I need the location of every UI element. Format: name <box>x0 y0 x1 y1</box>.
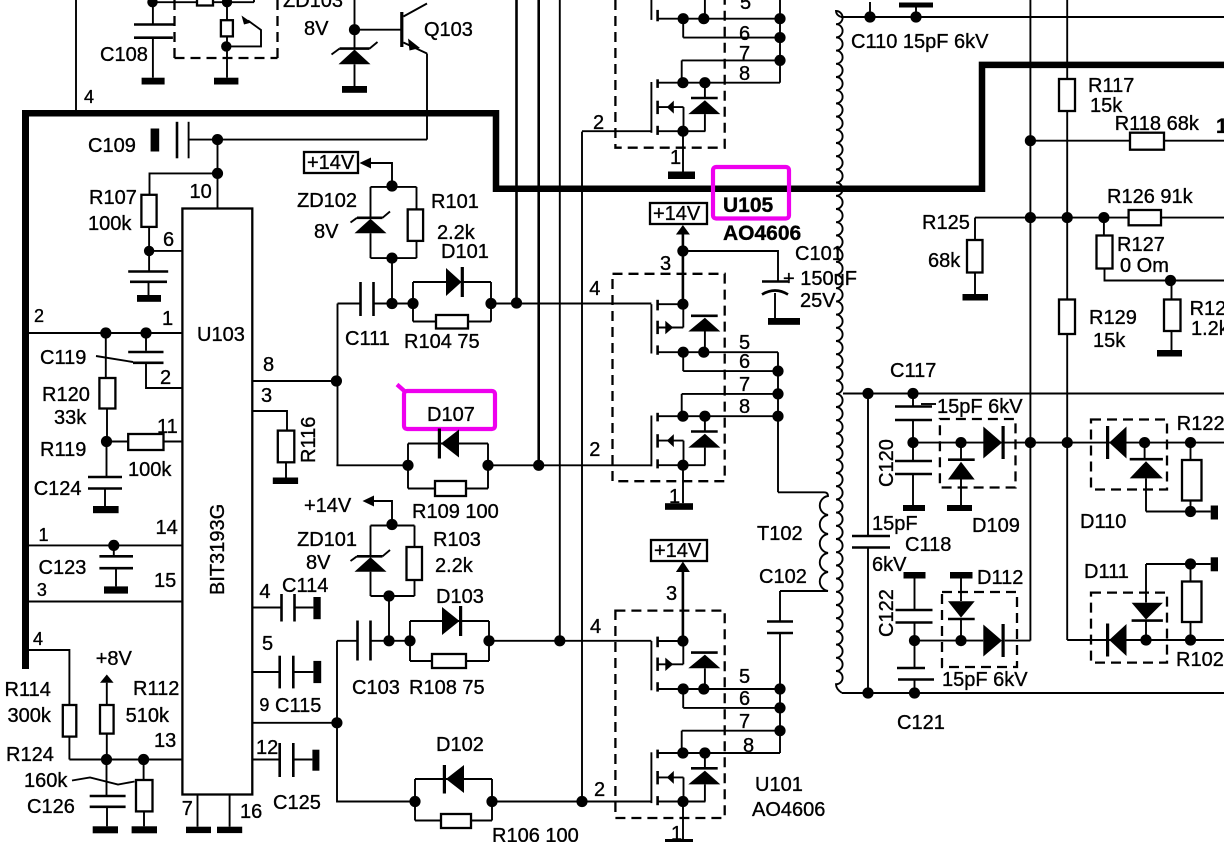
diode D111 series <box>1106 624 1127 657</box>
resistor R114 300k <box>5 679 77 760</box>
svg-text:15pF 6kV: 15pF 6kV <box>937 396 1023 418</box>
wire vertical top-left <box>75 0 77 111</box>
svg-text:D103: D103 <box>436 586 484 608</box>
junction dot <box>147 0 157 7</box>
thick supply line <box>22 65 1224 189</box>
wire right bus top box <box>774 0 785 83</box>
node 4 label top-left <box>84 87 94 107</box>
plate terminal C122 <box>904 572 926 579</box>
svg-text:R129: R129 <box>1089 307 1137 329</box>
svg-text:D107: D107 <box>427 404 475 426</box>
svg-text:R119: R119 <box>40 439 86 461</box>
junction dot <box>1185 506 1196 517</box>
svg-text:R114: R114 <box>5 679 51 701</box>
svg-text:R118 68k: R118 68k <box>1115 113 1200 135</box>
resistor R125 68k <box>922 212 983 294</box>
svg-text:1: 1 <box>39 525 49 545</box>
capacitor C108 <box>100 2 175 78</box>
svg-text:15k: 15k <box>1093 330 1126 352</box>
svg-text:510k: 510k <box>126 705 170 727</box>
junction dot v1 <box>511 297 522 308</box>
capacitor C124 <box>34 442 122 507</box>
svg-text:C120: C120 <box>876 439 898 487</box>
junction dot <box>1062 437 1073 448</box>
svg-text:D102: D102 <box>436 734 484 756</box>
junction dot <box>108 540 119 551</box>
wire bottom rail <box>842 692 1224 694</box>
wire to C103 node <box>388 596 390 641</box>
junction dot <box>862 687 873 698</box>
junction dot <box>485 298 496 309</box>
svg-text:R121: R121 <box>1190 298 1224 320</box>
svg-text:ZD103: ZD103 <box>283 0 343 12</box>
svg-text:3: 3 <box>261 385 272 407</box>
resistor R104 75 <box>404 315 491 353</box>
dashed box trimmer <box>175 0 278 58</box>
svg-text:ZD102: ZD102 <box>297 190 357 212</box>
diode D101 loop <box>407 241 491 322</box>
IC U103 BIT3193G <box>182 209 252 795</box>
capacitor at pin6 <box>128 251 168 295</box>
svg-text:C114: C114 <box>282 575 328 597</box>
capacitor C121 15pF 6kV <box>897 641 1028 734</box>
svg-text:C124: C124 <box>34 478 82 500</box>
capacitor C122 <box>876 579 933 641</box>
resistor R126 91k <box>1107 186 1194 225</box>
svg-text:6: 6 <box>739 23 750 45</box>
svg-text:2: 2 <box>594 779 605 801</box>
dashed box U105 <box>613 274 725 481</box>
svg-text:8V: 8V <box>304 18 329 40</box>
wire pin7 top box <box>682 43 780 83</box>
pin 16 stub <box>230 795 263 827</box>
resistor R118 68k <box>1115 113 1200 150</box>
wire pin1 row <box>29 306 182 333</box>
label 1 cut right edge <box>1216 115 1224 138</box>
junction dot <box>1025 135 1036 146</box>
svg-text:3: 3 <box>666 583 677 605</box>
capacitor C115 <box>252 633 321 717</box>
plate terminal D109 <box>947 505 972 511</box>
svg-text:9: 9 <box>259 695 269 715</box>
wire pin7 U105 <box>682 374 778 416</box>
label AO4606 U101 <box>752 799 825 821</box>
junction dot <box>100 327 111 338</box>
junction dot pin10 <box>212 168 223 179</box>
svg-text:8V: 8V <box>314 221 339 243</box>
junction dot <box>386 519 397 530</box>
resistor R106 100 <box>415 814 579 842</box>
svg-text:+14V: +14V <box>307 152 355 174</box>
transformer T102 secondary <box>836 11 843 693</box>
diode D102 loop <box>409 734 492 821</box>
label U101 <box>755 774 803 796</box>
wire secondary top rail <box>841 16 1224 18</box>
ground C126 <box>93 826 118 833</box>
transistor Q103 <box>400 4 473 140</box>
svg-text:C117: C117 <box>890 360 936 382</box>
junction dot <box>1185 558 1196 569</box>
svg-text:8: 8 <box>739 63 750 85</box>
dashed box top MOSFET pair <box>615 0 724 148</box>
junction dot pin6 <box>144 246 154 256</box>
wire pin 6 <box>149 229 182 251</box>
wire pin6 top box <box>683 19 780 45</box>
diode D111 shunt <box>1084 561 1163 640</box>
junction dot <box>140 327 151 338</box>
svg-text:13: 13 <box>154 730 176 752</box>
dashed box D109 <box>940 419 1016 488</box>
trimmer potentiometer <box>221 2 261 78</box>
plate terminal C120 <box>903 505 925 511</box>
wire pin 8 <box>252 354 336 381</box>
diode D112 series <box>983 624 1030 657</box>
label pin4 U105 <box>589 278 600 300</box>
capacitor C125 <box>252 737 321 814</box>
ground C124 <box>93 506 119 513</box>
capacitor C117 15pF 6kV <box>890 360 1023 443</box>
junction dot tap rail C117 <box>907 388 918 399</box>
wire bus v1 <box>515 0 518 303</box>
svg-text:R120: R120 <box>42 384 90 406</box>
thick left border <box>22 110 29 669</box>
svg-text:1: 1 <box>162 308 173 330</box>
svg-text:D109: D109 <box>972 515 1020 537</box>
capacitor C111 <box>338 282 414 350</box>
svg-text:100k: 100k <box>128 459 172 481</box>
wire D112 row <box>915 640 984 642</box>
svg-text:2: 2 <box>160 367 171 389</box>
wire to C111 node <box>391 258 393 303</box>
mosfet upper U105 <box>651 299 778 358</box>
svg-text:6kV: 6kV <box>872 554 907 576</box>
svg-text:8: 8 <box>743 735 754 757</box>
svg-text:D111: D111 <box>1084 561 1129 583</box>
svg-text:R101: R101 <box>431 191 479 213</box>
resistor R120 33k <box>42 333 115 442</box>
svg-text:C111: C111 <box>345 328 390 350</box>
ground C123 <box>104 586 128 593</box>
svg-text:C119: C119 <box>40 347 86 369</box>
wire pin1 U101 <box>671 802 683 842</box>
svg-text:C122: C122 <box>876 589 898 637</box>
svg-text:R109 100: R109 100 <box>412 501 499 523</box>
resistor R108 75 <box>409 654 489 699</box>
power +14V boxed <box>304 152 392 187</box>
svg-text:15pF: 15pF <box>872 513 918 535</box>
zener ZD102 8V <box>297 187 390 258</box>
junction dot v3 <box>554 635 565 646</box>
junction dot <box>383 590 394 601</box>
junction dot <box>1165 275 1176 286</box>
svg-text:U105: U105 <box>723 194 774 217</box>
junction dot R119 <box>101 436 112 447</box>
wire base Q103 <box>355 29 401 31</box>
capacitor C114 <box>252 575 328 622</box>
svg-text:8: 8 <box>263 354 274 376</box>
svg-text:C115: C115 <box>275 695 321 717</box>
wire D101 row to U105 pin4 <box>491 303 651 305</box>
junction dot +14V U105 <box>677 245 688 256</box>
resistor R116 <box>278 417 320 478</box>
svg-text:R112: R112 <box>133 678 179 700</box>
resistor R102 <box>1176 564 1224 671</box>
wire pin13 row <box>69 730 182 760</box>
svg-text:1: 1 <box>1216 115 1224 138</box>
junction dot <box>101 754 112 765</box>
junction dot <box>138 754 149 765</box>
resistor R117 15k <box>1059 75 1134 117</box>
svg-text:2.2k: 2.2k <box>435 555 474 577</box>
wire bus v3 <box>559 0 561 641</box>
junction dot <box>1185 634 1196 645</box>
svg-text:U103: U103 <box>197 324 245 346</box>
junction dot <box>864 11 875 22</box>
label pin2 U105 <box>589 439 600 461</box>
ground ZD103 <box>342 86 367 93</box>
junction dot v4 <box>576 796 587 807</box>
terminal bar D110 out <box>1211 506 1218 520</box>
wire pin6 U105 <box>683 351 778 373</box>
svg-text:R116: R116 <box>298 417 320 463</box>
capacitor C110 15pF 6kV <box>851 2 989 53</box>
svg-text:R102: R102 <box>1176 649 1224 671</box>
diode D107 loop <box>402 429 488 489</box>
zener ZD103 <box>283 0 378 86</box>
svg-text:12: 12 <box>256 737 278 759</box>
svg-text:R122: R122 <box>1177 413 1224 435</box>
capacitor C126 <box>27 760 126 827</box>
svg-text:4: 4 <box>33 629 43 649</box>
svg-text:4: 4 <box>590 616 601 638</box>
ground pin1 top box <box>668 172 695 180</box>
diode D109 series <box>983 426 1004 459</box>
mosfet lower U105 <box>651 396 778 471</box>
wire D103 row to U101 pin4 <box>489 640 651 642</box>
svg-text:2: 2 <box>593 112 604 134</box>
wire pin4 left row <box>29 629 69 705</box>
svg-text:C101: C101 <box>795 243 843 265</box>
dashed box D110 <box>1091 420 1167 490</box>
wire D109 output row <box>913 442 1224 444</box>
junction dot v2 <box>533 460 544 471</box>
svg-text:4: 4 <box>259 581 270 603</box>
svg-text:2: 2 <box>589 439 600 461</box>
wire pin 9 <box>252 722 337 724</box>
wire pin10 node <box>217 140 219 209</box>
svg-text:R107: R107 <box>89 187 137 209</box>
svg-text:8: 8 <box>739 396 750 418</box>
pin 7 stub <box>182 795 198 827</box>
svg-text:15pF 6kV: 15pF 6kV <box>942 669 1028 691</box>
junction dot <box>955 437 966 448</box>
resistor R112 510k <box>100 678 179 760</box>
capacitor C123 <box>39 545 177 592</box>
transformer T102 primary <box>757 492 828 591</box>
wire to R107 <box>150 173 218 194</box>
wire ZD101/R103 bottom rail <box>371 595 415 597</box>
terminal bar D111 out <box>1211 557 1218 571</box>
svg-text:R108 75: R108 75 <box>409 677 485 699</box>
mosfet lower U101 <box>651 735 780 807</box>
svg-text:15: 15 <box>154 570 176 592</box>
wire pin7 U101 <box>682 711 780 753</box>
svg-text:+14V: +14V <box>304 495 352 517</box>
svg-text:U101: U101 <box>755 774 803 796</box>
pin 10 label <box>190 181 212 203</box>
svg-text:7: 7 <box>739 43 750 65</box>
svg-text:1.2k: 1.2k <box>1191 318 1224 340</box>
svg-text:BIT3193G: BIT3193G <box>207 504 229 595</box>
ground R121 <box>1157 350 1182 357</box>
svg-text:1: 1 <box>670 147 681 169</box>
highlight box D107 <box>397 385 495 430</box>
junction dot <box>221 41 231 51</box>
resistor R122 <box>1177 413 1224 512</box>
svg-text:8V: 8V <box>306 552 331 574</box>
wire bus v4 <box>581 132 583 802</box>
dashed box U101 <box>615 611 724 818</box>
capacitor C101 150uF 25V <box>762 243 857 318</box>
capacitor C118 15pF 6kV <box>852 394 951 694</box>
svg-text:+ 150uF: + 150uF <box>783 268 857 290</box>
svg-text:6: 6 <box>739 351 750 373</box>
wire to C101 <box>683 251 778 281</box>
junction dot C103 node <box>383 635 394 646</box>
svg-text:D112: D112 <box>977 567 1023 589</box>
junction dot <box>910 11 921 22</box>
svg-text:+8V: +8V <box>96 648 133 670</box>
svg-text:C110 15pF 6kV: C110 15pF 6kV <box>851 31 989 53</box>
mosfet upper U101 <box>651 635 780 694</box>
svg-text:+14V: +14V <box>653 203 701 225</box>
power +14V ZD101 <box>304 495 392 526</box>
ground R124 <box>132 826 157 833</box>
label pin4 U101 <box>590 616 601 638</box>
junction dot <box>955 635 966 646</box>
svg-text:R104 75: R104 75 <box>404 331 480 353</box>
wire right bus U105 <box>772 352 783 492</box>
junction dot <box>483 635 494 646</box>
junction dot <box>1139 437 1150 448</box>
junction dot <box>907 437 918 448</box>
svg-text:R124: R124 <box>6 744 54 766</box>
ground trimmer <box>214 78 238 85</box>
wire C111 branch vertical <box>337 304 339 466</box>
junction dot <box>909 635 920 646</box>
capacitor C102 <box>759 566 807 689</box>
svg-text:C108: C108 <box>100 44 148 66</box>
svg-text:C126: C126 <box>27 796 75 818</box>
svg-text:4: 4 <box>84 87 94 107</box>
zener ZD101 8V <box>297 526 390 597</box>
svg-text:7: 7 <box>182 798 193 820</box>
wire C103 bus <box>337 641 415 802</box>
plate terminal D112 <box>950 572 973 579</box>
svg-text:100k: 100k <box>88 213 132 235</box>
diode D103 loop <box>404 586 489 661</box>
svg-text:3: 3 <box>37 580 47 600</box>
junction dot C111 node <box>386 298 397 309</box>
junction dot <box>909 687 920 698</box>
power +8V <box>96 648 133 705</box>
junction dot <box>222 0 232 7</box>
ground pin1 U105 <box>665 503 693 510</box>
ground C101 <box>768 318 800 325</box>
svg-text:R126 91k: R126 91k <box>1107 186 1194 208</box>
junction dot <box>1025 437 1036 448</box>
svg-text:16: 16 <box>240 801 262 823</box>
svg-text:5: 5 <box>262 633 273 655</box>
junction dot <box>1025 212 1036 223</box>
capacitor C120 <box>876 439 932 505</box>
svg-text:2: 2 <box>34 306 44 326</box>
junction dot <box>486 796 497 807</box>
highlight box U105 <box>713 167 789 219</box>
capacitor C103 <box>337 621 410 700</box>
junction dot pin9 <box>331 717 342 728</box>
svg-text:3: 3 <box>660 253 671 275</box>
wire R118 row <box>1030 140 1224 142</box>
resistor R124 160k <box>6 744 153 826</box>
dashed box D112 <box>942 592 1017 667</box>
svg-text:C109: C109 <box>88 135 136 157</box>
svg-text:25V: 25V <box>800 290 836 312</box>
junction dot tap rail C118 <box>862 388 873 399</box>
svg-text:D101: D101 <box>441 241 489 263</box>
svg-text:C118: C118 <box>905 534 951 556</box>
svg-text:C123: C123 <box>39 557 87 579</box>
svg-text:C103: C103 <box>352 677 400 699</box>
svg-text:C121: C121 <box>897 712 945 734</box>
wire secondary tap rail <box>843 393 1224 395</box>
resistor R121 1.2k <box>1164 281 1224 351</box>
diode D112 shunt <box>948 567 1023 641</box>
resistor R129 15k <box>1059 300 1137 353</box>
svg-text:33k: 33k <box>54 407 87 429</box>
capacitor C119 <box>40 333 182 389</box>
svg-text:R125: R125 <box>922 212 970 234</box>
ground C108 <box>142 78 165 85</box>
wire pin14 row <box>29 517 182 545</box>
wire pin8 node to D107 <box>336 464 408 466</box>
resistor R103 2.2k <box>407 526 481 597</box>
wire D111 top <box>1146 563 1211 565</box>
diode D109 shunt <box>948 443 1020 537</box>
power +14V boxed U105 <box>650 203 707 304</box>
wire ZD102/R101 top rail <box>371 186 417 188</box>
ground pin1 U101 <box>665 839 693 842</box>
svg-text:160k: 160k <box>24 770 68 792</box>
svg-text:D110: D110 <box>1080 511 1126 533</box>
power +14V boxed U101 <box>651 540 707 641</box>
svg-text:R117: R117 <box>1088 75 1134 97</box>
wire pin2 top box <box>582 112 651 134</box>
mosfet lower top box <box>651 63 780 137</box>
svg-text:R106 100: R106 100 <box>492 825 579 842</box>
junction dot <box>1140 634 1151 645</box>
svg-text:T102: T102 <box>757 523 803 545</box>
wire D111 row <box>1067 639 1224 641</box>
wire ZD101/R103 top rail <box>371 525 415 527</box>
label U105 <box>723 194 774 217</box>
label pin2 U101 <box>594 779 605 801</box>
wire R126 row <box>975 217 1224 219</box>
resistor (cut at top edge) <box>197 0 213 6</box>
resistor R101 2.2k <box>408 187 479 258</box>
wire ZD102/R101 bottom rail <box>371 257 417 259</box>
wire pin6 U101 <box>683 688 780 710</box>
